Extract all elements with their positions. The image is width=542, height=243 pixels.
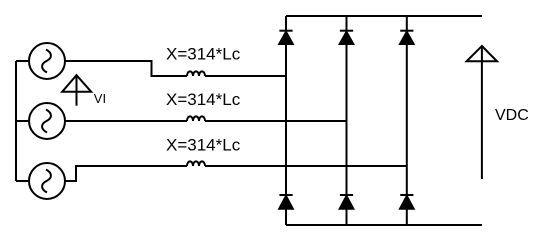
ac source V1: [29, 43, 65, 79]
svg-text:X=314*Lc: X=314*Lc: [166, 135, 241, 154]
diode D4 (bottom, leg 1): [279, 195, 293, 209]
ac source V3: [29, 163, 65, 199]
wire L1 to bridge leg 1: [205, 75, 286, 77]
wire bridge leg 2: [346, 16, 348, 225]
wire bus to V3: [16, 180, 29, 182]
wire V1 to L1: [65, 61, 187, 76]
wire bus to V2: [16, 120, 29, 122]
diode D5 (top, leg 3): [400, 31, 414, 44]
wire top rail (positive DC bus): [286, 15, 482, 17]
wire bridge leg 3: [406, 16, 408, 225]
wire left bus: [15, 61, 17, 181]
wire L2 to bridge leg 2: [205, 120, 347, 122]
wire V2 to L2: [65, 120, 187, 122]
svg-text:VDC: VDC: [495, 107, 529, 124]
inductor L2: [187, 116, 205, 121]
svg-text:X=314*Lc: X=314*Lc: [166, 45, 241, 64]
svg-text:VI: VI: [94, 91, 106, 106]
arrow VI (input voltage reference): [62, 75, 91, 106]
diode D1 (top, leg 1): [279, 31, 293, 44]
diode D6 (bottom, leg 2): [340, 195, 354, 209]
arrow VDC (output voltage reference): [467, 46, 497, 179]
wire V3 to L3: [64, 166, 187, 181]
diode D2 (bottom, leg 3): [400, 195, 414, 209]
wire L3 to bridge leg 3: [205, 165, 407, 167]
wire bridge leg 1: [285, 16, 287, 225]
wire bottom rail (negative DC bus): [286, 224, 482, 226]
wire bus to V1: [16, 60, 29, 62]
inductor L1: [187, 71, 205, 76]
svg-text:X=314*Lc: X=314*Lc: [166, 90, 241, 109]
inductor L3: [187, 161, 205, 166]
ac source V2: [29, 103, 65, 139]
diode D3 (top, leg 2): [340, 31, 354, 44]
